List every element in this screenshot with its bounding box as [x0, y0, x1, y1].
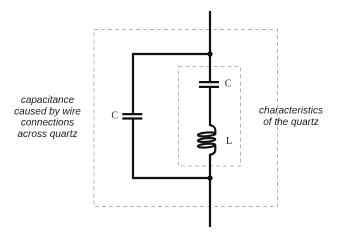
capacitor C (parallel, left branch) [122, 114, 142, 118]
inner dashed box (quartz characteristics region) [179, 67, 241, 167]
wire: main vertical bottom segment [209, 154, 211, 227]
svg-text:C: C [111, 110, 118, 121]
svg-text:characteristics: characteristics [259, 105, 323, 116]
node: top junction [207, 51, 212, 56]
wire: between series capacitor and inductor [209, 88, 211, 127]
annotation: right caption [259, 105, 323, 127]
outer dashed box (wire-connection capacitance region) [94, 30, 278, 207]
wire: left vertical above capacitor [132, 53, 134, 113]
annotation: left caption [14, 95, 81, 140]
wire: main vertical top segment [209, 11, 211, 82]
capacitor C (series, inside quartz box) [199, 82, 219, 87]
wire: left vertical below capacitor [132, 120, 134, 180]
svg-text:connections: connections [21, 118, 74, 129]
svg-text:C: C [225, 78, 232, 89]
svg-text:of the quartz: of the quartz [263, 117, 319, 128]
svg-text:L: L [226, 136, 232, 147]
node: bottom junction [207, 175, 212, 180]
wire: top horizontal branch [133, 53, 210, 55]
wire: bottom horizontal branch [133, 177, 210, 179]
svg-text:caused by wire: caused by wire [14, 106, 81, 117]
inductor L (coil) [198, 125, 216, 155]
svg-text:across quartz: across quartz [17, 129, 77, 140]
svg-text:capacitance: capacitance [21, 95, 75, 106]
